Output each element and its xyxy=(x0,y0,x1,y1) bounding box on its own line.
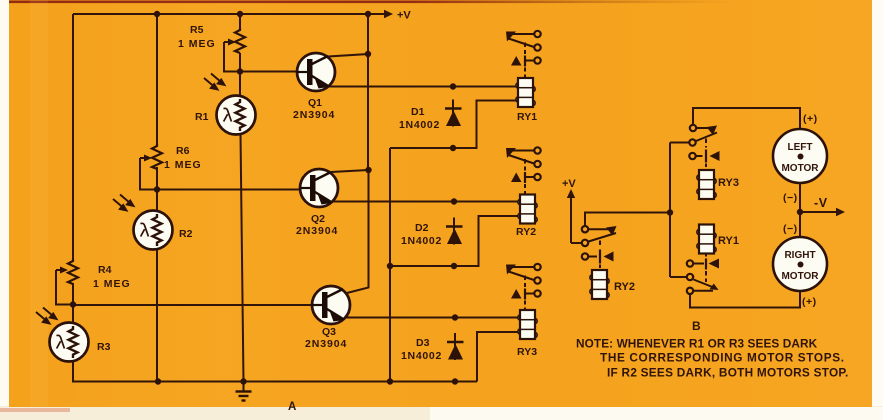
svg-text:RY2: RY2 xyxy=(516,226,536,238)
svg-text:D2: D2 xyxy=(415,222,429,234)
svg-text:D3: D3 xyxy=(416,337,430,349)
svg-text:R1: R1 xyxy=(195,111,209,123)
svg-text:RY1: RY1 xyxy=(517,111,537,123)
svg-text:RY3: RY3 xyxy=(718,177,739,189)
svg-text:A: A xyxy=(288,401,296,413)
svg-text:LEFT: LEFT xyxy=(788,142,813,153)
svg-text:MOTOR: MOTOR xyxy=(781,271,819,282)
svg-text:RY3: RY3 xyxy=(517,346,537,358)
svg-text:Q3: Q3 xyxy=(322,326,336,338)
svg-text:(−): (−) xyxy=(783,192,798,204)
svg-text:R2: R2 xyxy=(179,228,193,240)
svg-text:2N3904: 2N3904 xyxy=(296,225,338,237)
svg-text:R3: R3 xyxy=(97,341,111,353)
svg-text:-V: -V xyxy=(814,196,828,210)
svg-text:Q2: Q2 xyxy=(311,213,325,225)
svg-text:IF R2 SEES DARK, BOTH MOTORS S: IF R2 SEES DARK, BOTH MOTORS STOP. xyxy=(607,366,849,380)
svg-text:RIGHT: RIGHT xyxy=(784,250,815,261)
svg-text:+V: +V xyxy=(397,10,411,22)
svg-text:(+): (+) xyxy=(803,113,818,125)
svg-text:R5: R5 xyxy=(190,24,204,36)
svg-text:THE CORRESPONDING MOTOR STOPS.: THE CORRESPONDING MOTOR STOPS. xyxy=(600,351,845,365)
svg-text:+V: +V xyxy=(562,178,576,190)
svg-text:1N4002: 1N4002 xyxy=(401,350,442,362)
svg-text:(+): (+) xyxy=(802,296,817,308)
svg-text:B: B xyxy=(692,319,701,333)
svg-text:R6: R6 xyxy=(176,145,190,157)
svg-text:1N4002: 1N4002 xyxy=(399,119,440,131)
svg-text:RY2: RY2 xyxy=(614,281,635,293)
svg-text:1 MEG: 1 MEG xyxy=(178,38,216,50)
svg-text:MOTOR: MOTOR xyxy=(781,163,819,174)
svg-text:NOTE: WHENEVER R1 OR R3 SEES: NOTE: WHENEVER R1 OR R3 SEES DARK xyxy=(576,337,818,351)
svg-text:2N3904: 2N3904 xyxy=(293,109,335,121)
svg-text:1 MEG: 1 MEG xyxy=(164,159,202,171)
svg-text:2N3904: 2N3904 xyxy=(305,338,347,350)
svg-text:D1: D1 xyxy=(411,106,425,118)
svg-text:1N4002: 1N4002 xyxy=(401,235,442,247)
svg-text:RY1: RY1 xyxy=(718,235,739,247)
svg-text:1 MEG: 1 MEG xyxy=(93,278,131,290)
svg-text:R4: R4 xyxy=(98,264,112,276)
svg-text:(−): (−) xyxy=(783,223,798,235)
svg-text:Q1: Q1 xyxy=(308,97,322,109)
